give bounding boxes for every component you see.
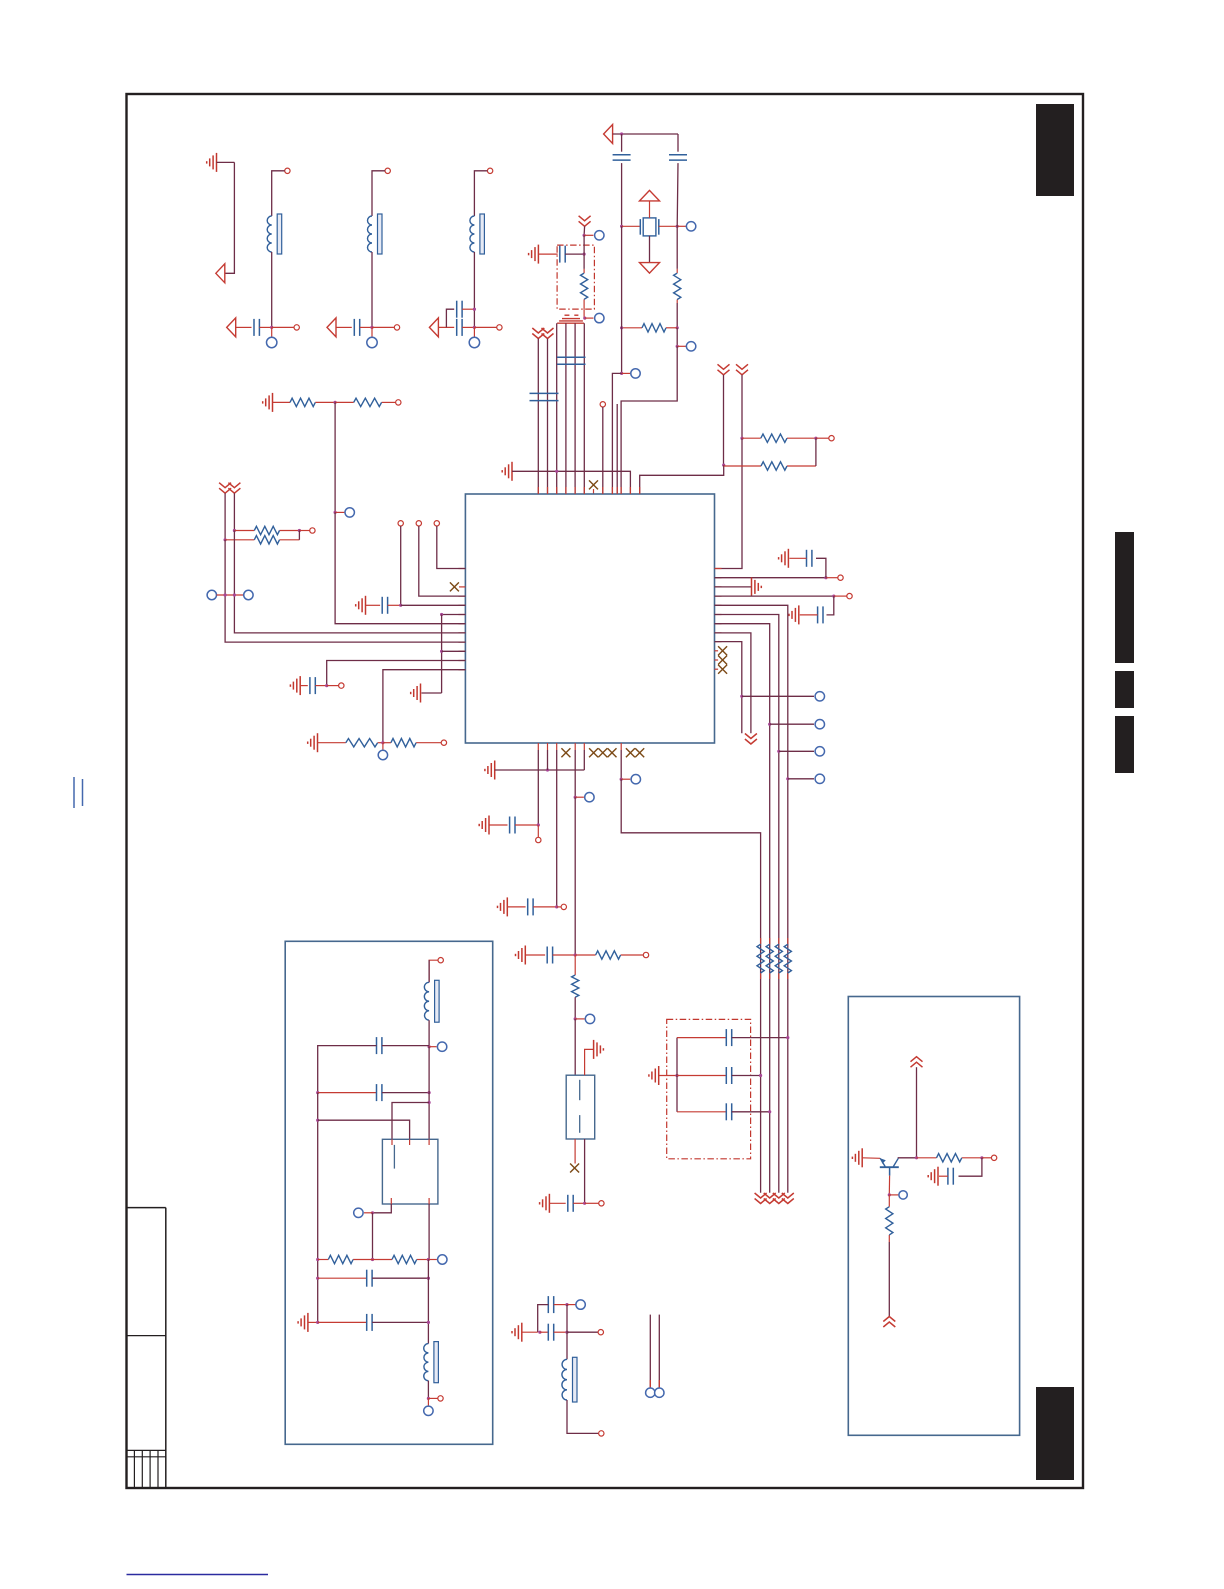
sub-circuit box B2 [848, 997, 1019, 1436]
junction stub row 696.3 [740, 695, 743, 698]
wire V4 down [723, 375, 725, 465]
bottom link underline [127, 1574, 269, 1576]
terminal T24 [991, 1155, 996, 1160]
junction C24 node [428, 1091, 431, 1094]
terminal P21 [576, 1300, 585, 1309]
capacitor C15 [528, 898, 533, 915]
black margin bar 2 [1115, 671, 1134, 708]
wire C14 to node [515, 824, 538, 826]
wire C11 to node [315, 685, 326, 687]
wire G4 lead [273, 401, 291, 403]
ground G6 [411, 684, 421, 703]
junction C22 node [565, 1331, 568, 1334]
wire C4x left elbow [446, 309, 454, 327]
title block table [127, 1208, 166, 1488]
wire C10 to node [388, 604, 401, 606]
wire C24 right [382, 1092, 429, 1094]
power arrow A3 [327, 318, 336, 337]
wire parallel into IC [616, 404, 618, 494]
wire arrow to cap C2 [236, 326, 252, 328]
power arrow A5 (xtal top) [604, 125, 613, 144]
wire IC pin 596.1 [715, 595, 834, 597]
junction rail-b3 [555, 470, 558, 473]
junction V5-R4 [740, 437, 743, 440]
wire stub to P14 [742, 695, 814, 697]
no-connect X4 [718, 656, 727, 665]
terminal P10 [345, 508, 354, 517]
capacitor C6 (xtal right) [669, 155, 687, 160]
stub L7 down [427, 1398, 429, 1405]
wire V7 down [233, 493, 235, 530]
wire C17 to bus4 [732, 1037, 788, 1039]
dashed box DB2 [667, 1019, 751, 1158]
power chevron V3 [542, 328, 554, 339]
ground G8 [308, 733, 318, 752]
junction C4x node [473, 308, 476, 311]
stub R10 node down [382, 743, 384, 750]
wire T9 down [400, 526, 402, 605]
capacitor C17 [677, 1029, 732, 1046]
stub L6 to P24 [429, 1046, 437, 1048]
junction R4 right [814, 437, 817, 440]
wire G19 lead [522, 1331, 538, 1333]
junction node N3 [370, 326, 373, 329]
terminal P9 [595, 313, 604, 322]
resistor R4 [742, 434, 816, 442]
ground G3 [502, 462, 512, 481]
junction C21 node [565, 1303, 568, 1306]
capacitor C27 [948, 1168, 953, 1185]
ground G16 [649, 1066, 659, 1085]
stub Q1 out to P25 [364, 1212, 373, 1214]
resistor R9 [225, 536, 299, 544]
resistor R10 [346, 739, 383, 747]
capacitor C2 [254, 319, 259, 336]
ground G11 [789, 605, 799, 624]
wire G18 lead [549, 1202, 565, 1204]
junction G19 node [538, 1331, 541, 1334]
terminal P3 (bottom) [367, 337, 377, 347]
junction R20 right [980, 1156, 983, 1159]
wire IC pin 641.6 elbow [715, 642, 742, 734]
capacitor C18 [677, 1067, 732, 1084]
wire SAW pin4 down [584, 1139, 586, 1203]
power chevron V11 [773, 1193, 785, 1204]
capacitor C21 [548, 1296, 553, 1313]
terminal T2b (right) [294, 325, 299, 330]
wire C27 to ground [939, 1175, 948, 1177]
capacitor C3 [354, 319, 359, 336]
terminal T7 [396, 400, 401, 405]
wire C12 to ground [789, 557, 806, 559]
junction bus bottom [440, 650, 443, 653]
no-connect X10 [626, 748, 635, 757]
ground G13 [479, 816, 489, 835]
no-connect X1 (top pin) [589, 480, 598, 489]
wire match vertical [566, 1305, 568, 1360]
wire ground row 770 [495, 769, 585, 771]
resistor R3 (bias) [581, 269, 588, 309]
stub node N4 to terminal [474, 326, 496, 328]
wire bundle b2 [547, 339, 549, 495]
wire IC pin 614.5 elbow [715, 615, 779, 1193]
wire b5 chain [574, 797, 576, 955]
power chevron V1 [579, 216, 591, 227]
junction V6-R9 [224, 538, 227, 541]
junction V4-R5 [722, 464, 725, 467]
junction V7-R8 [233, 529, 236, 532]
wire IC pin 632.9 elbow [715, 633, 751, 733]
junction b5 tap [574, 796, 577, 799]
junction DB2 node [675, 1074, 678, 1077]
junction rail 1322 [316, 1321, 319, 1324]
wire cap C27 elbow [959, 1158, 982, 1176]
wire top stub L2 [272, 171, 285, 216]
antenna post wire 1 [649, 1315, 651, 1388]
terminal P22 [646, 1388, 655, 1397]
wire Q1 out down [372, 1213, 374, 1260]
junction rail 1259 [316, 1258, 319, 1261]
junction b7 tap [620, 778, 623, 781]
stub node b3 right [557, 906, 561, 908]
stub L7 to T23 [428, 1397, 437, 1399]
capacitor C10 [382, 597, 387, 614]
stub stack to terminal [585, 317, 594, 319]
ground G18 [540, 1194, 550, 1213]
terminal T6 [829, 436, 834, 441]
wire bundle b3 [556, 323, 558, 494]
capacitor C16 [547, 947, 552, 964]
junction R18/R19 [371, 1258, 374, 1261]
inductor L5 [562, 1357, 577, 1402]
junction Q2 e-node [888, 1193, 891, 1196]
inductor L4 [470, 214, 485, 254]
wire tap to P15 [770, 723, 814, 725]
terminal T15 [847, 593, 852, 598]
wire C25 right [372, 1277, 428, 1279]
antenna post tips 2 [658, 1380, 660, 1388]
terminal P5 (xtal out) [686, 222, 695, 231]
wire IC row 660.5 [327, 661, 466, 686]
wire xtal right branch tap [676, 328, 678, 347]
wire R21 down [888, 1242, 890, 1317]
stub b7 tap [621, 778, 630, 780]
wire T10 down [419, 526, 466, 596]
terminal T13 [441, 740, 446, 745]
terminal P26 [438, 1255, 447, 1264]
wire bundle b4 [565, 323, 567, 494]
stub e-node to P28 [889, 1194, 898, 1196]
no-connect X9 [608, 748, 617, 757]
wire C21 left elbow [538, 1305, 549, 1333]
ground G5 [356, 596, 366, 615]
terminal P19 [585, 1014, 594, 1023]
capacitor C26 [318, 1314, 372, 1331]
wire xtal right to IC pin [621, 346, 677, 494]
wire arrow to cap C3 [336, 326, 352, 328]
ground G2 [529, 245, 539, 264]
wire IC pin 577.7 [715, 577, 826, 579]
stub xtal up [649, 201, 651, 218]
wire pin b7 down [620, 750, 622, 779]
wire V5 down [741, 375, 743, 438]
wire T5 to IC [602, 407, 604, 494]
inductor L7 [424, 1342, 439, 1383]
wire xtal left to IC pin [612, 373, 621, 494]
antenna post wire 2 [658, 1315, 660, 1388]
terminal P7 [686, 342, 695, 351]
wire G21 to Q2 emitter [862, 1157, 880, 1160]
wire C22 to T20 [567, 1331, 598, 1333]
wire pin b3 down [556, 750, 558, 907]
wire B1 left rail [317, 1093, 319, 1323]
resistor R13 [572, 955, 579, 997]
capacitor C25 [318, 1270, 372, 1287]
wire V6 lower [225, 540, 465, 642]
resistor R18 [318, 1255, 373, 1263]
junction xtal left [620, 225, 623, 228]
power chevron V4 [718, 364, 730, 375]
terminal P11 [207, 590, 216, 599]
terminal T2a (top) [285, 168, 290, 173]
stub C21 to P21 [567, 1304, 576, 1306]
junction rail 1278 [316, 1277, 319, 1280]
wire long rail to bus1 [621, 779, 760, 1192]
stub tap2 [575, 1018, 584, 1020]
wire T11 down [437, 526, 466, 569]
left margin mark lines [74, 777, 83, 808]
wire pin b6 [583, 750, 585, 770]
ground G9 [779, 549, 789, 568]
capacitor C11 [310, 677, 315, 694]
wire G5 lead [366, 604, 381, 606]
stub R8 to terminal [299, 530, 309, 532]
terminal P14 [815, 692, 824, 701]
resistor R2 (xtal feedback) [622, 324, 678, 332]
terminal T4a (top) [487, 168, 492, 173]
wire R5 elbow up [815, 438, 817, 466]
junction C10 node [399, 604, 402, 607]
wire IC row to bus (651.3) [442, 650, 466, 652]
capacitor C4 [457, 319, 462, 336]
no-connect X7 [589, 748, 598, 757]
terminal P18 [585, 793, 594, 802]
wire IC row to bus (614.5) [442, 614, 466, 616]
junction xtal right [676, 225, 679, 228]
inductor L3 [368, 214, 383, 254]
no-connect X3 [718, 646, 727, 655]
terminal T22 [438, 958, 443, 963]
resistor R8 [234, 526, 299, 534]
junction xtal top-left [620, 132, 623, 135]
wire xtal top rail [613, 133, 678, 135]
junction C14 node [537, 823, 540, 826]
ground G22 [928, 1167, 938, 1186]
wire xtal left plate lead [622, 225, 641, 227]
wire R13 down [574, 997, 576, 1019]
capacitor stack CS1 [557, 315, 584, 323]
terminal P16 [815, 747, 824, 756]
wire P11 to P12 [217, 594, 244, 596]
junction R10/R11 [381, 741, 384, 744]
dashed box DB1 [557, 245, 594, 309]
power chevron V7 [228, 483, 240, 494]
capacitor C14 [510, 817, 515, 834]
stub to terminal T14 [826, 577, 838, 579]
transistor Q1 (module) [382, 1139, 438, 1204]
no-connect X12 [570, 1164, 579, 1173]
wire G7 lead [300, 685, 308, 687]
terminal T10 [416, 521, 421, 526]
wire Q1 right rail through [428, 1204, 430, 1260]
wire cap C13 elbow [827, 596, 834, 615]
terminal T21 [599, 1431, 604, 1436]
wire IC pin 623.7 elbow [715, 624, 770, 1193]
wire chevron V1 down [583, 226, 586, 235]
terminal P20 [631, 775, 640, 784]
wire L4 to junction [473, 252, 475, 327]
terminal T16 [536, 837, 541, 842]
wire ground rail G3 [512, 471, 630, 494]
junction C19 bus2 [768, 1110, 771, 1113]
stub bias to terminal [584, 234, 593, 236]
wire G13 lead [489, 824, 508, 826]
Q1 pin ticks [391, 1139, 429, 1204]
wire right rail mid [427, 1260, 429, 1344]
junction b5 tap2 [574, 1017, 577, 1020]
power arrow A6 (xtal up) [640, 190, 660, 201]
wire C23 left elbow [318, 1046, 377, 1093]
wire G2 to cap C7 [538, 253, 557, 255]
wire xtal right branch lower [676, 303, 678, 328]
wire G8 lead [318, 742, 346, 744]
terminal T3b (right) [394, 325, 399, 330]
junction B1 rail top [316, 1091, 319, 1094]
wire xtal right branch upper [677, 134, 679, 152]
junction V6 cross [224, 593, 227, 596]
junction R8 right [298, 529, 301, 532]
terminal P25 [354, 1208, 363, 1217]
resistor R16 [775, 938, 782, 979]
terminal T11 [434, 521, 439, 526]
capacitor C4x [457, 301, 462, 318]
stub tap to terminal [622, 372, 631, 374]
terminal P4 (bottom) [469, 337, 479, 347]
wire R3 to cap stack [583, 309, 585, 318]
wire bus to ground G6 [422, 692, 442, 694]
terminal P17 [815, 774, 824, 783]
power chevron V6 [219, 483, 231, 494]
stub node N3 down [371, 327, 373, 337]
stub right tap to terminal [677, 345, 686, 347]
junction Q1 out [371, 1211, 374, 1214]
capacitor C12 [807, 550, 812, 567]
wire IC row 669.7 [383, 670, 466, 743]
capacitor C5 (xtal left) [613, 155, 631, 160]
power chevron V9 [755, 1193, 767, 1204]
wire G15 lead [525, 954, 545, 956]
no-connect X8 [598, 748, 607, 757]
wire DB2 rail [676, 1038, 678, 1112]
terminal T4b (right) [497, 325, 502, 330]
black tab top-right [1036, 104, 1074, 196]
power chevron V10 [764, 1193, 776, 1204]
stub node N2 down [271, 327, 273, 337]
capacitor C24 [318, 1084, 382, 1101]
wire V4 elbow to IC [640, 465, 724, 494]
wire xtal right plate lead [659, 225, 677, 227]
junction xtal-left tap [620, 372, 623, 375]
power chevron V2 [532, 328, 544, 339]
ground G19 [512, 1323, 522, 1342]
left bus vertical [441, 615, 443, 694]
wire arrow to cap C4 [438, 326, 454, 328]
wire C21 right [554, 1304, 567, 1306]
capacitor C22 [540, 1324, 554, 1341]
power arrow A1 [216, 264, 225, 283]
junction C15 node [555, 905, 558, 908]
junction R6/R7 [334, 401, 337, 404]
wire V down to arrow row [225, 162, 235, 273]
junction C18 bus1 [759, 1074, 762, 1077]
SAW filter F1 [566, 1075, 595, 1139]
stub to terminal T15 [834, 595, 847, 597]
terminal T5 [600, 402, 605, 407]
ground G14 [498, 897, 508, 916]
wire C7 to bias node [565, 253, 584, 255]
stub R4 to terminal [816, 437, 829, 439]
wire C26 right [372, 1321, 428, 1323]
power chevron V5 [736, 364, 748, 375]
wire R9 elbow up [298, 531, 300, 540]
wire xtal left branch upper [621, 134, 623, 152]
ground G20 [298, 1313, 308, 1332]
wire top stub L4 [474, 171, 487, 216]
stub tap T8 [335, 511, 344, 513]
stub b5 tap [575, 796, 584, 798]
wire IC pin 605.3 elbow [715, 605, 788, 1192]
junction Q2 c-node [915, 1156, 918, 1159]
junction Q1 c-node [428, 1101, 431, 1104]
terminal T19 [599, 1201, 604, 1206]
stub X2 pin [459, 586, 465, 588]
IC U1 [465, 494, 714, 743]
resistor R20 [917, 1154, 982, 1162]
junction C16 node [574, 953, 577, 956]
terminal P28 [899, 1191, 907, 1199]
no-connect X6 [561, 748, 570, 757]
power chevron V12 [782, 1193, 794, 1204]
power chevron V8 [745, 734, 757, 745]
terminal T17 [561, 904, 566, 909]
wire bundle b5 [574, 323, 576, 494]
wire Q2 base down [888, 1176, 890, 1195]
wire G16 lead [659, 1075, 677, 1077]
ground G4 [263, 393, 273, 412]
terminal P23 [655, 1388, 664, 1397]
junction node N4 [473, 326, 476, 329]
wire tap to IC row [335, 512, 465, 623]
junction bus3 tap [777, 750, 780, 753]
wire pin b5 down [574, 750, 576, 797]
resistor R11 [383, 739, 441, 747]
capacitor C9 (wide) [530, 393, 559, 400]
wire Q1 pin2 feed [318, 1120, 410, 1139]
wire tap to P17 [788, 778, 814, 780]
junction V7 cross [233, 593, 236, 596]
junction C25 right [427, 1277, 430, 1280]
resistor R12 [575, 951, 643, 959]
